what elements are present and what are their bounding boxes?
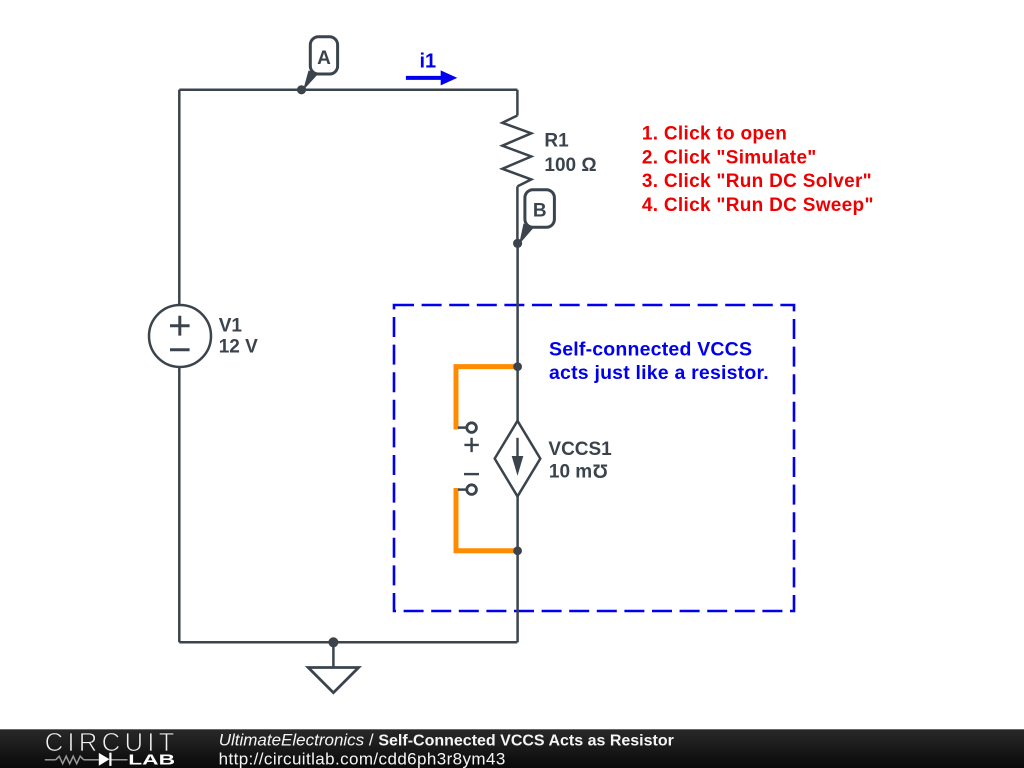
label R1 100 Ω xyxy=(544,131,596,176)
footer logo diode xyxy=(99,753,111,766)
annotation blue text xyxy=(549,338,769,384)
wire: R1 top lead xyxy=(516,90,519,116)
wire: junction to bottom net xyxy=(516,551,519,643)
svg-text:100 Ω: 100 Ω xyxy=(544,155,596,176)
VCCS1 nc+ terminal circle xyxy=(467,423,477,433)
VCCS1 plus mark xyxy=(464,438,478,452)
svg-text:12 V: 12 V xyxy=(219,336,258,357)
voltage source V1 xyxy=(149,305,211,367)
junction dot ground xyxy=(328,637,338,647)
junction dot node A xyxy=(297,85,306,94)
svg-text:1. Click to open: 1. Click to open xyxy=(642,124,787,145)
svg-text:R1: R1 xyxy=(544,131,569,152)
svg-text:UltimateElectronics / Self-Con: UltimateElectronics / Self-Connected VCC… xyxy=(219,730,674,749)
label V1 12 V xyxy=(219,315,258,357)
junction dot bottom orange xyxy=(513,546,522,555)
svg-text:LAB: LAB xyxy=(128,751,175,768)
svg-text:2. Click "Simulate": 2. Click "Simulate" xyxy=(642,147,817,168)
VCCS1 nc- terminal circle xyxy=(467,485,477,495)
wire: bottom horizontal ground net xyxy=(179,641,517,644)
VCCS1 arrow xyxy=(512,438,524,476)
wire: R1 bottom lead to node B xyxy=(516,186,519,243)
label VCCS1 10 mMho xyxy=(548,439,612,482)
svg-text:V1: V1 xyxy=(219,315,243,336)
wire: orange self-connection top (node B to nc+) xyxy=(456,367,518,430)
VCCS1 nc+ terminal lead xyxy=(458,426,466,429)
svg-text:VCCS1: VCCS1 xyxy=(548,439,612,460)
svg-text:acts just like a resistor.: acts just like a resistor. xyxy=(549,362,769,384)
node A flag xyxy=(303,37,338,91)
VCCS1 nc- terminal lead xyxy=(458,488,466,491)
wire: VCCS bottom to junction xyxy=(516,496,519,550)
wire: orange self-connection bottom (nc- to bottom node) xyxy=(456,488,518,551)
wire: top horizontal net A xyxy=(179,89,517,92)
svg-text:3. Click "Run DC Solver": 3. Click "Run DC Solver" xyxy=(642,171,872,192)
junction dot top orange xyxy=(513,362,522,371)
VCCS1 diamond body xyxy=(495,421,541,497)
wire: junction to VCCS top xyxy=(516,367,519,421)
svg-text:A: A xyxy=(317,48,331,69)
annotation blue dashed box xyxy=(394,305,794,611)
footer bar xyxy=(0,729,1024,768)
wire: left vertical lower (V1 - to ground net) xyxy=(178,367,181,642)
svg-text:Ω: Ω xyxy=(593,460,608,481)
resistor R1 xyxy=(502,116,531,187)
current arrow i1 xyxy=(406,70,457,85)
svg-text:10 m: 10 m xyxy=(549,461,592,482)
svg-text:4. Click "Run DC Sweep": 4. Click "Run DC Sweep" xyxy=(642,195,874,216)
wire: node B down to VCCS top junction xyxy=(516,243,519,366)
wire: left vertical upper (node A to V1 +) xyxy=(178,90,181,305)
svg-text:i1: i1 xyxy=(420,50,437,72)
junction dot node B xyxy=(513,239,522,248)
svg-text:B: B xyxy=(533,200,547,221)
node B flag xyxy=(519,190,554,245)
footer logo schematic glyph xyxy=(45,756,128,764)
annotation red instructions xyxy=(642,124,874,216)
ground symbol xyxy=(308,642,358,692)
VCCS1 minus mark xyxy=(464,473,479,475)
svg-text:http://circuitlab.com/cdd6ph3r: http://circuitlab.com/cdd6ph3r8ym43 xyxy=(219,750,506,768)
svg-text:Self-connected VCCS: Self-connected VCCS xyxy=(549,338,752,360)
